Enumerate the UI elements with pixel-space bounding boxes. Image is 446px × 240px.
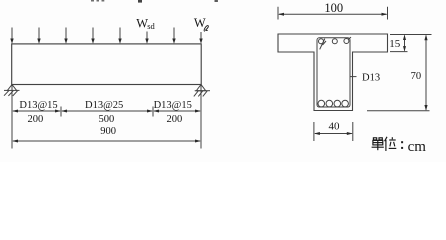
top bar left with hook	[319, 39, 327, 50]
cropped text remnants top edge	[91, 0, 218, 3]
dimension 200 (left)	[12, 110, 61, 113]
svg-text:70: 70	[411, 71, 422, 82]
svg-text:15: 15	[389, 38, 401, 50]
svg-text:D13@25: D13@25	[85, 100, 123, 111]
dimension 100	[278, 7, 388, 20]
tick x61	[60, 107, 62, 117]
dimension 70 arrow	[424, 35, 427, 111]
stirrup D13	[317, 38, 350, 107]
svg-text:D13: D13	[362, 72, 380, 83]
svg-text:cm: cm	[408, 139, 427, 155]
dimension 40	[314, 122, 353, 141]
section bottom extension	[367, 110, 430, 112]
flange top extension	[390, 34, 432, 36]
top bar right with hook	[344, 37, 351, 43]
dimension 15 arrow	[403, 35, 406, 52]
tick x153	[152, 107, 154, 117]
svg-text:D13@15: D13@15	[19, 100, 57, 111]
beam outline	[12, 44, 202, 85]
svg-text:W: W	[194, 16, 206, 30]
dimension 500 (middle)	[61, 110, 153, 113]
extension line left	[11, 85, 13, 149]
bottom bars	[318, 100, 348, 107]
unit note: colon	[401, 141, 403, 149]
svg-text:900: 900	[100, 126, 116, 137]
distributed load arrows	[10, 28, 202, 44]
svg-text:D13@15: D13@15	[154, 100, 192, 111]
svg-text:sd: sd	[147, 21, 155, 31]
svg-text:500: 500	[99, 114, 115, 125]
top bar middle	[332, 39, 337, 44]
unit note: glyph 位	[385, 137, 397, 151]
svg-text:200: 200	[28, 114, 44, 125]
unit note: glyph 單	[372, 138, 384, 150]
T-section outline	[278, 34, 388, 111]
svg-text:100: 100	[324, 1, 343, 15]
dimension 200 (right)	[153, 110, 201, 113]
svg-text:40: 40	[329, 121, 341, 133]
label Wsd	[136, 16, 155, 31]
right support (pin)	[194, 85, 210, 97]
leader line D13	[350, 76, 357, 78]
label Wl (live load)	[194, 16, 208, 31]
flange bottom extension	[390, 51, 408, 53]
extension line right	[200, 85, 202, 149]
dimension 900	[12, 140, 201, 143]
svg-text:200: 200	[167, 114, 183, 125]
left support (pin)	[4, 85, 20, 96]
